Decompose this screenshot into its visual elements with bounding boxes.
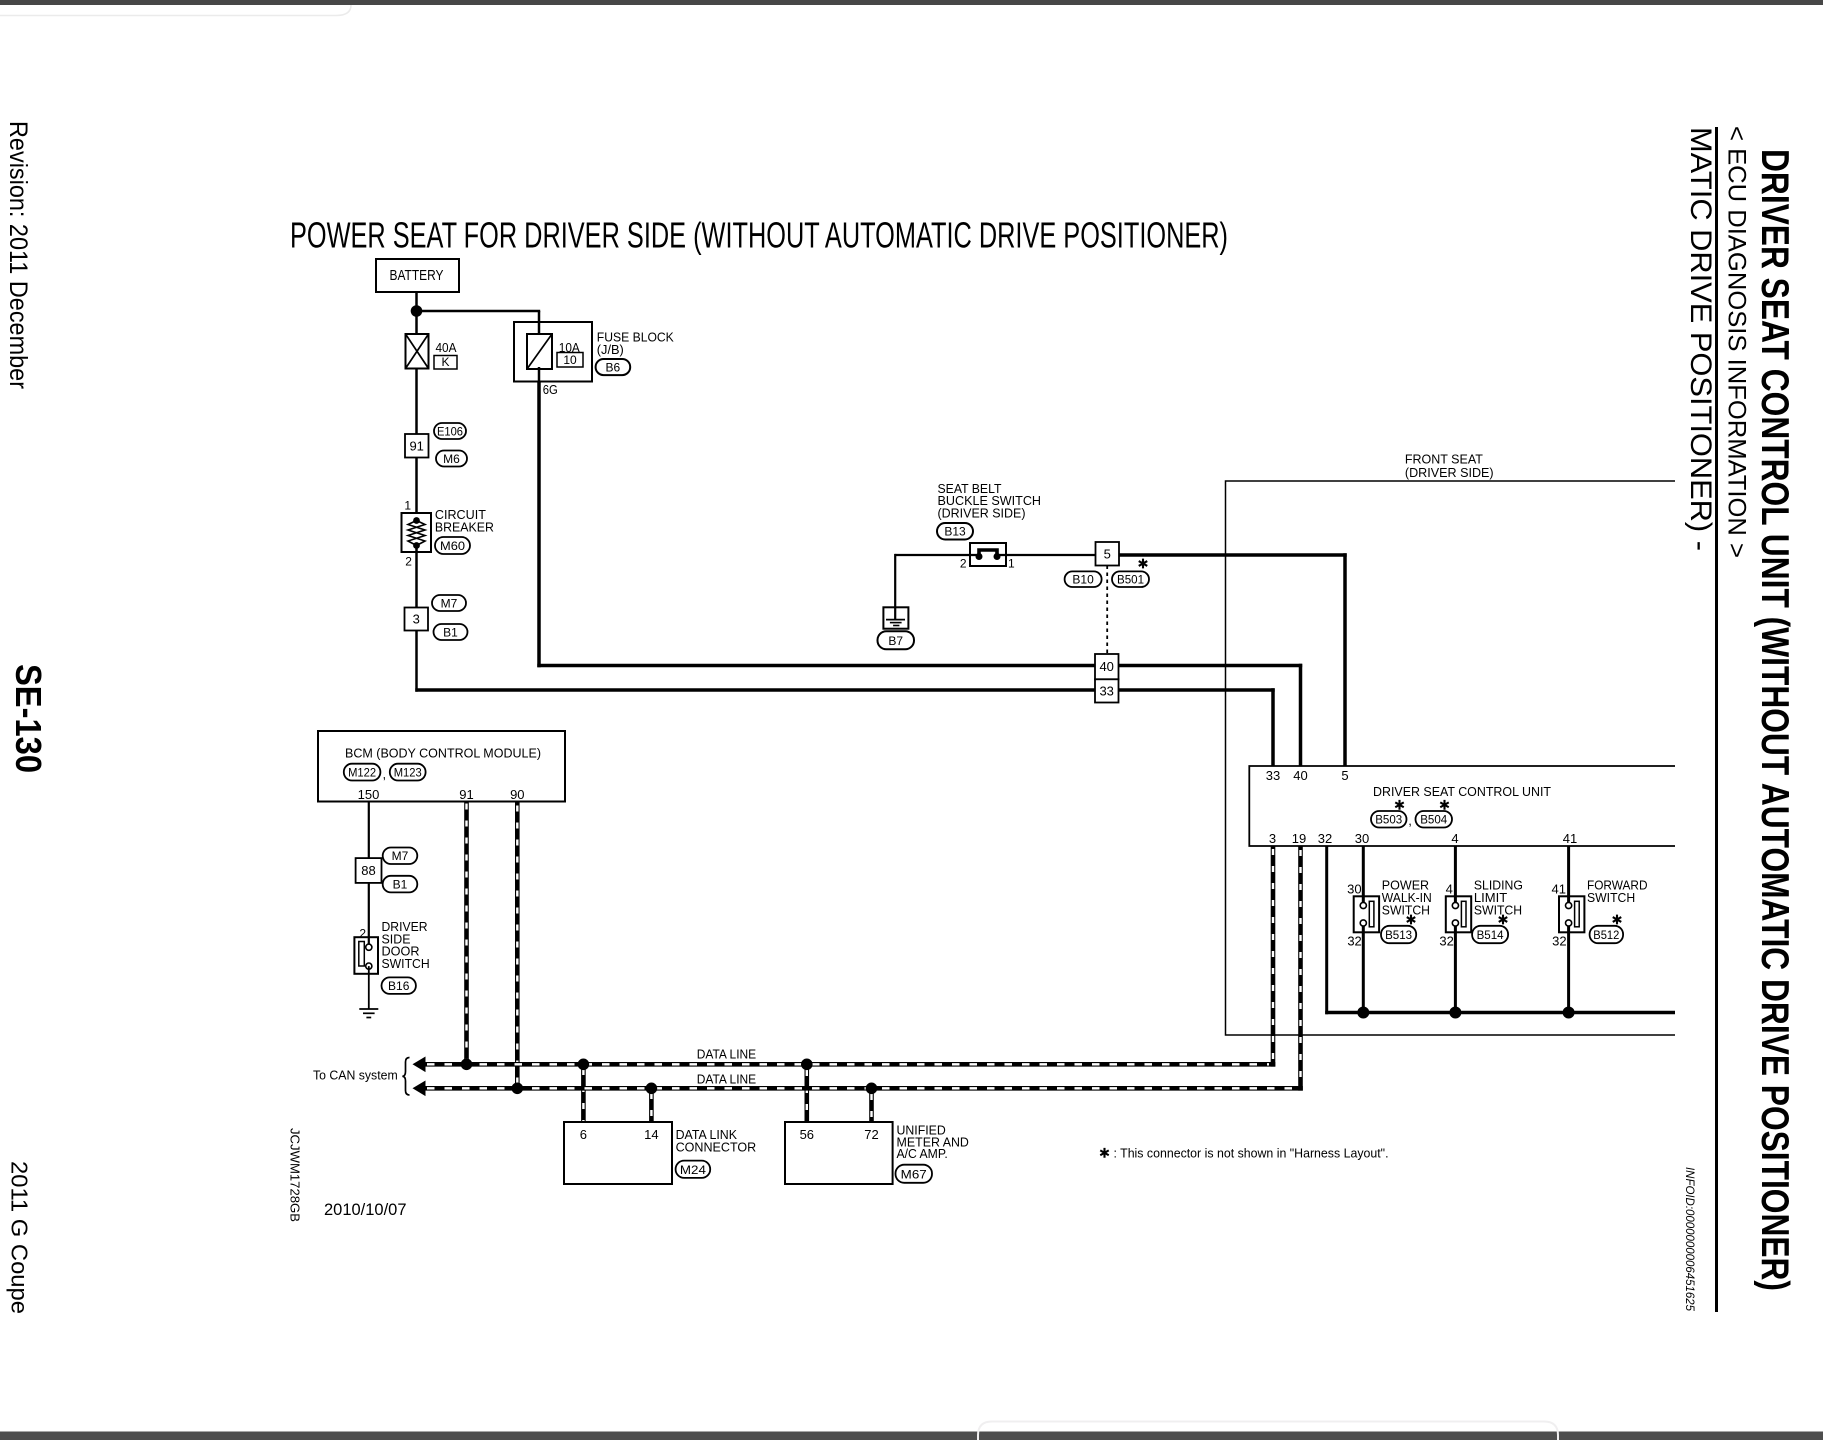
svg-text:DATA LINE: DATA LINE [697,1047,757,1062]
svg-text:DRIVER SEAT CONTROL UNIT (WITH: DRIVER SEAT CONTROL UNIT (WITHOUT AUTOMA… [1753,149,1796,1291]
svg-text:JCJWM1728GB: JCJWM1728GB [288,1128,302,1222]
svg-text:1: 1 [404,499,411,513]
svg-text:SWITCH: SWITCH [1382,902,1430,917]
svg-text:M7: M7 [392,849,409,863]
svg-text:,: , [1408,813,1412,828]
svg-text:32: 32 [1552,933,1566,948]
svg-text:SE-130: SE-130 [8,664,49,773]
svg-text:2: 2 [359,927,366,941]
svg-text:14: 14 [644,1127,658,1142]
svg-text:(DRIVER SIDE): (DRIVER SIDE) [1405,465,1494,480]
svg-text:91: 91 [409,439,423,454]
svg-text:B512: B512 [1593,928,1619,942]
svg-text:91: 91 [459,787,473,802]
svg-text:B7: B7 [888,634,903,648]
svg-text:CONNECTOR: CONNECTOR [676,1140,757,1155]
svg-text:B10: B10 [1072,573,1094,587]
svg-text:4: 4 [1446,882,1453,897]
svg-text:33: 33 [1266,768,1280,783]
svg-text:B501: B501 [1117,573,1144,587]
svg-text:2: 2 [405,555,412,569]
svg-text:M122: M122 [348,766,376,780]
svg-text:41: 41 [1552,882,1566,897]
svg-text:(DRIVER SIDE): (DRIVER SIDE) [938,506,1026,521]
svg-text:B513: B513 [1385,928,1412,942]
svg-text:(J/B): (J/B) [597,342,624,357]
svg-text:DATA LINE: DATA LINE [697,1071,757,1086]
svg-text:B1: B1 [443,625,458,639]
svg-text:B13: B13 [944,525,966,539]
svg-text:33: 33 [1099,684,1113,699]
svg-text:B503: B503 [1375,813,1402,827]
svg-text:B514: B514 [1477,928,1504,942]
svg-text:19: 19 [1292,831,1306,846]
svg-text:SWITCH: SWITCH [1474,902,1522,917]
svg-text:M123: M123 [394,766,422,780]
svg-text:MATIC DRIVE POSITIONER) -: MATIC DRIVE POSITIONER) - [1684,127,1717,551]
svg-text:90: 90 [510,787,524,802]
svg-text:150: 150 [358,787,380,802]
svg-text:6: 6 [580,1127,587,1142]
svg-text:40: 40 [1293,768,1307,783]
svg-text:M7: M7 [441,596,458,610]
svg-text:M60: M60 [440,539,465,553]
svg-text:,: , [383,767,387,782]
svg-text:: This connector is not shown: : This connector is not shown in "Harnes… [1114,1145,1389,1160]
svg-text:10: 10 [563,353,577,367]
svg-text:2: 2 [960,557,967,571]
svg-text:72: 72 [864,1127,878,1142]
svg-text:32: 32 [1347,933,1361,948]
svg-text:6G: 6G [543,382,558,397]
svg-text:POWER SEAT FOR DRIVER SIDE (WI: POWER SEAT FOR DRIVER SIDE (WITHOUT AUTO… [290,215,1228,256]
svg-text:K: K [441,355,449,369]
svg-text:40A: 40A [436,340,457,355]
svg-text:30: 30 [1355,831,1369,846]
svg-text:Revision: 2011 December: Revision: 2011 December [4,121,32,389]
svg-text:41: 41 [1563,831,1577,846]
svg-text:BCM (BODY CONTROL MODULE): BCM (BODY CONTROL MODULE) [345,745,541,760]
svg-text:A/C AMP.: A/C AMP. [897,1146,948,1161]
svg-text:32: 32 [1318,831,1332,846]
svg-text:4: 4 [1451,831,1458,846]
svg-text:M6: M6 [443,452,460,466]
svg-text:2010/10/07: 2010/10/07 [324,1200,407,1219]
svg-text:B1: B1 [393,878,408,892]
svg-text:2011 G Coupe: 2011 G Coupe [7,1161,33,1314]
svg-text:B6: B6 [606,360,621,374]
svg-text:5: 5 [1104,546,1111,561]
svg-text:3: 3 [1269,831,1276,846]
svg-text:To CAN system: To CAN system [313,1068,398,1083]
svg-text:DRIVER SEAT CONTROL UNIT: DRIVER SEAT CONTROL UNIT [1373,784,1551,799]
svg-text:SWITCH: SWITCH [382,956,430,971]
svg-text:32: 32 [1439,933,1453,948]
svg-text:BATTERY: BATTERY [390,267,444,284]
svg-text:56: 56 [800,1127,814,1142]
svg-text:M67: M67 [901,1168,927,1182]
svg-text:INFOID:0000000006451625: INFOID:0000000006451625 [1683,1167,1695,1312]
svg-text:3: 3 [413,612,420,627]
svg-text:5: 5 [1341,768,1348,783]
svg-text:B16: B16 [388,979,410,993]
svg-text:< ECU DIAGNOSIS INFORMATION >: < ECU DIAGNOSIS INFORMATION > [1723,126,1751,558]
svg-text:B504: B504 [1420,813,1447,827]
svg-text:BREAKER: BREAKER [435,519,494,534]
svg-text:88: 88 [361,863,375,878]
svg-text:40: 40 [1099,659,1113,674]
svg-text:M24: M24 [680,1163,706,1177]
svg-text:E106: E106 [437,424,463,438]
svg-text:30: 30 [1347,882,1361,897]
svg-text:1: 1 [1008,557,1015,571]
svg-text:SWITCH: SWITCH [1587,890,1635,905]
